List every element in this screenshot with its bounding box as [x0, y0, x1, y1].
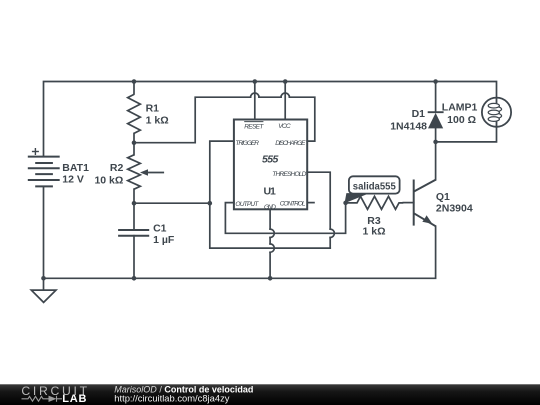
- IC U1 pin labels: [235, 123, 306, 211]
- wire discharge path: [134, 97, 251, 143]
- transistor Q1: [414, 180, 436, 227]
- wire GND pin lower: [269, 252, 271, 278]
- wire R2 bottom to trigger vertical: [134, 202, 210, 204]
- svg-text:1N4148: 1N4148: [390, 121, 427, 133]
- node C1 rail: [132, 276, 137, 281]
- svg-text:RESET: RESET: [244, 124, 264, 131]
- wire top rail: [44, 82, 497, 157]
- svg-text:CONTROL: CONTROL: [280, 201, 306, 208]
- wire VCC pin to rail: [284, 82, 286, 120]
- wire hop over VCC: [281, 93, 289, 97]
- net flag salida555: [345, 176, 399, 202]
- wire hop threshold vertical over output wire: [330, 229, 334, 237]
- node VCC rail: [283, 79, 288, 84]
- svg-text:salida555: salida555: [353, 182, 396, 193]
- svg-text:LAB: LAB: [62, 393, 87, 405]
- wire bottom rail: [44, 226, 436, 278]
- wire THRESHOLD vertical upper: [307, 172, 330, 229]
- svg-text:D1: D1: [412, 108, 426, 120]
- wire OUTPUT branch: [225, 203, 345, 234]
- wire between hops: [259, 96, 281, 98]
- svg-text:THRESHOLD: THRESHOLD: [272, 171, 306, 178]
- wire R3 to base: [403, 202, 413, 204]
- wire lamp bottom to diode node: [436, 127, 497, 142]
- svg-text:2N3904: 2N3904: [436, 203, 473, 215]
- wire D1 bottom: [435, 128, 437, 142]
- node R1 bottom: [132, 140, 137, 145]
- node RESET rail: [253, 79, 258, 84]
- wire R2 bottom to C1 top: [133, 189, 135, 230]
- svg-text:http://circuitlab.com/c8ja4zy: http://circuitlab.com/c8ja4zy: [114, 392, 229, 403]
- svg-text:TRIGGER: TRIGGER: [235, 140, 259, 147]
- svg-text:1 kΩ: 1 kΩ: [146, 114, 169, 126]
- potentiometer R2 wiper arrow: [140, 169, 148, 176]
- potentiometer R2: [128, 155, 164, 189]
- wire collector: [435, 142, 437, 180]
- svg-text:R1: R1: [146, 102, 160, 114]
- capacitor C1: [118, 230, 149, 236]
- node trigger junction: [208, 201, 213, 206]
- diode D1: [428, 112, 444, 128]
- svg-text:1 kΩ: 1 kΩ: [362, 226, 385, 238]
- wire discharge to pin: [289, 97, 314, 141]
- wire D1 top: [435, 82, 437, 113]
- node R2 bottom: [132, 201, 137, 206]
- wire hop gnd over output wire: [270, 229, 274, 237]
- node gnd pin rail: [268, 276, 273, 281]
- svg-text:GND: GND: [264, 204, 276, 211]
- node ground rail: [41, 276, 46, 281]
- resistor R1: [128, 94, 141, 133]
- IC U1 name labels: [262, 154, 278, 198]
- svg-text:DISCHARGE: DISCHARGE: [275, 140, 306, 147]
- svg-text:C1: C1: [153, 222, 167, 234]
- svg-text:100 Ω: 100 Ω: [447, 114, 476, 126]
- wire GND pin upper: [269, 209, 271, 229]
- wire TRIGGER pin branch: [210, 141, 330, 248]
- wire CONTROL stub: [307, 202, 315, 204]
- wire RESET pin to rail: [254, 82, 256, 120]
- node output R3: [343, 201, 348, 206]
- svg-text:10 kΩ: 10 kΩ: [94, 175, 123, 187]
- svg-text:Q1: Q1: [436, 191, 450, 203]
- footer logo squiggle: [22, 396, 63, 402]
- lamp LAMP1: [482, 98, 511, 127]
- wire R1 bottom to R2 top: [133, 133, 135, 154]
- ground: [31, 278, 56, 302]
- wire R1 branch top: [133, 82, 135, 95]
- wire THRESHOLD vertical lower: [329, 238, 331, 249]
- node R1 top: [132, 79, 137, 84]
- transistor Q1 emitter arrow: [423, 216, 431, 223]
- svg-text:VCC: VCC: [278, 123, 291, 130]
- svg-text:1 µF: 1 µF: [153, 234, 175, 246]
- wire battery bottom to ground node: [43, 186, 45, 278]
- wire C1 bottom to rail: [133, 236, 135, 279]
- svg-text:U1: U1: [264, 186, 277, 198]
- svg-text:555: 555: [262, 154, 278, 166]
- svg-text:R2: R2: [110, 162, 124, 174]
- wire hop gnd over trigger wire: [270, 244, 274, 252]
- wire hop over RESET: [251, 93, 259, 97]
- IC U1 555 box: [234, 120, 307, 210]
- node D1 bottom: [433, 140, 438, 145]
- footer bar: [0, 384, 540, 405]
- svg-text:LAMP1: LAMP1: [442, 102, 478, 114]
- node D1 rail: [433, 79, 438, 84]
- svg-text:12 V: 12 V: [62, 174, 84, 186]
- node junction dots: [41, 79, 438, 280]
- footer logo diode: [49, 396, 57, 402]
- svg-text:BAT1: BAT1: [62, 162, 89, 174]
- battery BAT1: [28, 148, 60, 186]
- IC U1 reset overline: [244, 121, 263, 123]
- svg-text:OUTPUT: OUTPUT: [235, 201, 259, 208]
- wire GND middle: [269, 238, 271, 244]
- resistor R3: [346, 196, 404, 209]
